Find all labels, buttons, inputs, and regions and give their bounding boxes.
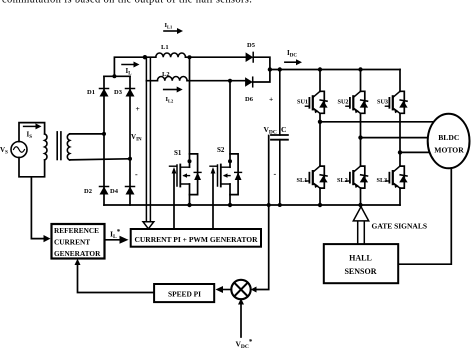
current arrow IL1	[164, 30, 178, 32]
current arrow Is	[24, 125, 37, 127]
svg-text:VDC: VDC	[264, 125, 277, 136]
arrow IL* reference to current PI	[105, 239, 121, 241]
diode loop bracket	[190, 154, 198, 195]
svg-text:SL3: SL3	[377, 177, 388, 184]
svg-text:VS: VS	[0, 146, 8, 156]
svg-text:CURRENT PI + PWM GENERATOR: CURRENT PI + PWM GENERATOR	[134, 235, 258, 244]
channel stubs	[181, 167, 190, 184]
voltage source Vs	[11, 142, 27, 158]
IGBT SL3	[385, 166, 407, 188]
IGBT SU3	[385, 91, 407, 113]
wire bridge output to node	[114, 57, 144, 76]
IGBT SU1	[305, 91, 327, 113]
diode D5	[246, 52, 254, 62]
svg-text:IL1: IL1	[165, 22, 174, 30]
speed PI box	[154, 284, 214, 302]
svg-text:IDC: IDC	[287, 49, 297, 59]
wire primary loop	[19, 123, 45, 177]
node secondary-right	[128, 157, 132, 161]
diode loop bracket	[230, 154, 238, 195]
channel bar	[179, 165, 181, 187]
inductor L1	[145, 56, 246, 58]
comparator node (circle X)	[231, 280, 250, 299]
svg-text:-: -	[274, 170, 277, 179]
svg-text:D6: D6	[245, 96, 254, 103]
svg-text:L2: L2	[162, 71, 170, 78]
node DC+	[268, 67, 272, 71]
IGBT SU2	[346, 91, 368, 113]
svg-text:C: C	[281, 125, 286, 134]
sense arrow IL to PWM generator (double line, hollow head)	[145, 57, 147, 222]
svg-text:IL2: IL2	[166, 96, 175, 104]
ground rail	[104, 204, 400, 206]
wire secondary top	[70, 133, 104, 135]
svg-text:MOTOR: MOTOR	[434, 145, 464, 154]
IGBT SL2	[346, 166, 368, 188]
gate bar	[176, 165, 178, 186]
gate signals arrow (hollow)	[357, 221, 359, 244]
phase wire A	[320, 121, 435, 123]
current arrow IDC	[285, 61, 297, 63]
phase wire B	[361, 137, 430, 139]
svg-text:S2: S2	[217, 146, 225, 154]
phase wire C	[400, 151, 431, 153]
svg-text:GENERATOR: GENERATOR	[54, 249, 101, 258]
svg-text:HALL: HALL	[349, 253, 372, 262]
svg-text:SU2: SU2	[338, 99, 349, 106]
svg-text:S1: S1	[174, 149, 182, 157]
svg-text:VDC*: VDC*	[236, 338, 253, 349]
svg-text:+: +	[269, 95, 273, 104]
diode D1	[100, 89, 109, 97]
svg-text:IL: IL	[126, 67, 133, 77]
svg-text:D5: D5	[247, 42, 256, 49]
current PI + PWM generator box	[131, 229, 261, 247]
body stub with arrow	[184, 175, 190, 177]
svg-text:+: +	[136, 104, 140, 113]
diode D6	[245, 77, 253, 87]
svg-text:REFERENCE: REFERENCE	[54, 226, 99, 235]
gate drive wire to S2	[212, 172, 214, 229]
svg-text:D3: D3	[114, 89, 123, 96]
wire DC+ top rail	[270, 69, 400, 71]
wire D5 D6 join	[253, 57, 270, 82]
svg-text:SENSOR: SENSOR	[344, 267, 376, 276]
wire speed PI to reference generator	[78, 264, 155, 293]
inductor L2	[146, 80, 245, 82]
svg-text:SU1: SU1	[297, 99, 308, 106]
gate bar	[217, 165, 219, 186]
drain wire from L1	[189, 57, 191, 167]
svg-text:L1: L1	[161, 44, 169, 51]
svg-text:VIN: VIN	[131, 133, 142, 143]
body diode triangle	[194, 172, 201, 180]
channel bar	[220, 165, 222, 187]
node secondary-left	[102, 132, 106, 136]
drain wire from L2	[229, 81, 231, 168]
inverter leg C wire	[399, 70, 401, 206]
BLDC motor	[428, 114, 470, 169]
inverter leg A wire	[319, 70, 321, 206]
svg-text:SU3: SU3	[377, 99, 388, 106]
source wire to rail	[189, 184, 191, 205]
node bridge top	[112, 74, 116, 78]
svg-text:SL1: SL1	[297, 177, 308, 184]
transformer T1 secondary coil	[67, 134, 69, 160]
svg-text:D2: D2	[84, 188, 92, 195]
wire Vs feedback to reference generator	[31, 177, 44, 239]
transformer core	[56, 132, 58, 160]
wire secondary bottom	[70, 159, 130, 160]
svg-text:-: -	[135, 170, 138, 179]
diode D2	[100, 187, 109, 195]
svg-text:IL*: IL*	[110, 228, 121, 240]
arrow VDC* reference	[240, 304, 242, 338]
svg-text:SL2: SL2	[337, 177, 348, 184]
svg-text:BLDC: BLDC	[438, 133, 459, 142]
capacitor C	[279, 70, 281, 206]
wire bridge top bus	[104, 75, 130, 77]
diode D4	[126, 187, 135, 195]
wire bridge right column	[129, 76, 131, 205]
transformer T1 primary coil	[45, 134, 47, 160]
gate lead	[170, 165, 177, 167]
current arrow IL2	[164, 89, 178, 91]
svg-text:D1: D1	[87, 89, 95, 96]
MOSFET S2	[210, 79, 242, 208]
arrow comparator to speed PI	[222, 289, 231, 291]
diode D3	[126, 89, 135, 97]
MOSFET S1	[170, 55, 202, 207]
svg-text:commutation is based on the ou: commutation is based on the output of th…	[2, 0, 252, 5]
svg-text:IS: IS	[27, 131, 33, 141]
motor feedback wire to hall sensor	[398, 168, 451, 264]
body diode triangle	[235, 172, 242, 180]
svg-text:CURRENT: CURRENT	[54, 238, 90, 247]
node cap tap	[278, 67, 282, 71]
node IL tap	[143, 55, 147, 59]
body stub with arrow	[225, 175, 231, 177]
channel stubs	[222, 167, 231, 184]
source wire to rail	[229, 184, 231, 205]
hall sensor box	[324, 244, 398, 283]
VDC sense wire to comparator	[254, 136, 269, 290]
current arrow IL	[122, 64, 135, 66]
svg-text:SPEED PI: SPEED PI	[168, 289, 201, 298]
svg-text:GATE SIGNALS: GATE SIGNALS	[372, 222, 428, 231]
gate drive wire to S1	[173, 172, 175, 229]
inverter leg B wire	[360, 70, 362, 206]
reference current generator box	[52, 224, 105, 259]
gate lead	[210, 165, 217, 167]
svg-text:D4: D4	[110, 188, 119, 195]
IGBT SL1	[305, 166, 327, 188]
wire bridge left column	[103, 76, 105, 205]
